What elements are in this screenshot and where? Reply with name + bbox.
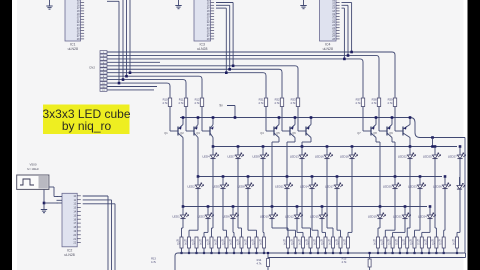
svg-text:Q6: Q6 (292, 131, 296, 135)
svg-text:Q3: Q3 (196, 131, 200, 135)
svg-text:LED26: LED26 (433, 184, 442, 188)
svg-text:LED2: LED2 (187, 184, 195, 188)
svg-text:Q9: Q9 (389, 131, 393, 135)
svg-text:LED16: LED16 (315, 154, 324, 158)
svg-text:4.7k: 4.7k (151, 260, 157, 264)
svg-text:LED8: LED8 (237, 184, 245, 188)
svg-text:LED19: LED19 (368, 214, 377, 218)
svg-text:LED21: LED21 (393, 214, 402, 218)
svg-text:LED5: LED5 (212, 184, 220, 188)
svg-text:LED13: LED13 (290, 154, 299, 158)
svg-text:4.7k: 4.7k (274, 101, 280, 105)
svg-text:4.7k: 4.7k (342, 260, 348, 264)
svg-text:Q4: Q4 (260, 131, 264, 135)
svg-text:LED24: LED24 (418, 214, 427, 218)
svg-text:LED4: LED4 (202, 154, 210, 158)
svg-text:Q7: Q7 (357, 131, 361, 135)
svg-text:CN2: CN2 (89, 66, 95, 70)
svg-text:LED7: LED7 (227, 154, 235, 158)
svg-text:R15: R15 (342, 257, 347, 261)
svg-text:fv= 10kHz: fv= 10kHz (27, 167, 39, 171)
svg-text:IC4: IC4 (325, 43, 331, 47)
svg-text:IC1: IC1 (70, 43, 76, 47)
svg-text:V500: V500 (29, 163, 36, 167)
svg-text:Q1: Q1 (164, 131, 168, 135)
svg-text:LED1: LED1 (172, 214, 180, 218)
svg-text:4.7k: 4.7k (162, 101, 168, 105)
svg-text:4.7k: 4.7k (257, 262, 263, 266)
svg-text:LED15: LED15 (310, 214, 319, 218)
svg-text:9v: 9v (219, 104, 223, 108)
svg-text:IC2: IC2 (67, 248, 73, 252)
svg-text:LED27: LED27 (448, 154, 457, 158)
svg-text:4.7k: 4.7k (387, 101, 393, 105)
svg-text:IC3: IC3 (200, 43, 206, 47)
svg-text:LED25: LED25 (423, 154, 432, 158)
svg-text:Q5: Q5 (276, 131, 280, 135)
svg-text:4.7k: 4.7k (355, 101, 361, 105)
svg-text:LED20: LED20 (383, 184, 392, 188)
svg-text:4.7k: 4.7k (178, 101, 184, 105)
svg-text:Q2: Q2 (180, 131, 184, 135)
svg-text:LED22: LED22 (398, 154, 407, 158)
svg-text:R14: R14 (257, 258, 262, 262)
svg-text:uLN28: uLN28 (64, 253, 74, 257)
svg-text:LED17: LED17 (325, 184, 334, 188)
svg-text:4.7k: 4.7k (258, 101, 264, 105)
svg-text:LED11: LED11 (275, 184, 284, 188)
svg-text:LED9: LED9 (252, 154, 260, 158)
svg-text:uLN28: uLN28 (68, 47, 78, 51)
svg-text:Q8: Q8 (373, 131, 377, 135)
svg-text:4.7k: 4.7k (371, 101, 377, 105)
svg-text:uLN28: uLN28 (323, 47, 333, 51)
svg-text:LED18: LED18 (340, 154, 349, 158)
svg-text:uLN28: uLN28 (197, 47, 207, 51)
svg-text:LED6: LED6 (222, 214, 230, 218)
svg-text:LED14: LED14 (300, 184, 309, 188)
svg-text:LED23: LED23 (408, 184, 417, 188)
svg-text:LED3: LED3 (197, 214, 205, 218)
svg-text:LED12: LED12 (285, 214, 294, 218)
svg-text:4.7k: 4.7k (194, 101, 200, 105)
svg-text:by niq_ro: by niq_ro (62, 119, 112, 133)
svg-text:4.7k: 4.7k (290, 101, 296, 105)
svg-text:R13: R13 (151, 257, 156, 261)
svg-text:LED10: LED10 (260, 214, 269, 218)
